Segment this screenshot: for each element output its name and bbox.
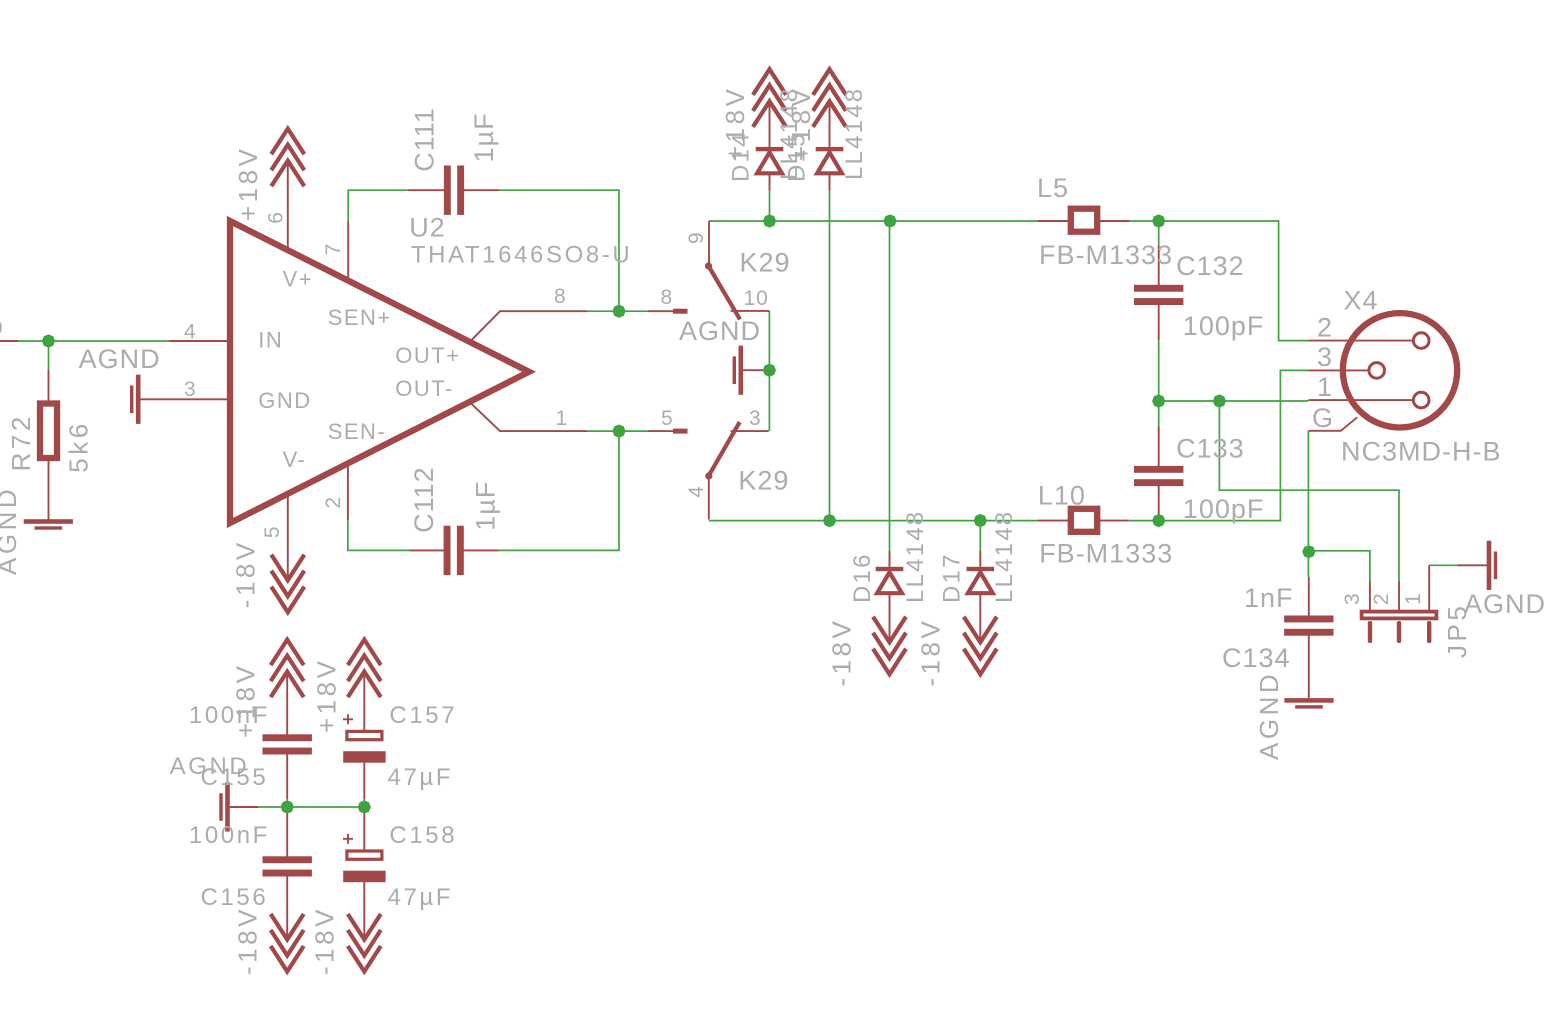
op-amp U2 triangle THAT1646SO8-U (230, 221, 529, 523)
svg-text:-18V: -18V (231, 539, 261, 608)
capacitor C158 47uF leads (363, 811, 365, 850)
diode D16 LL4148 (889, 551, 891, 567)
svg-text:100pF: 100pF (1183, 494, 1265, 524)
junction L5 C132 (1152, 214, 1165, 227)
wire D16 to top net (889, 221, 891, 551)
relay K29 bottom switch pin 3 lead (731, 430, 769, 432)
junction mid node branch (1213, 394, 1226, 407)
supply +18V above D15 (813, 69, 846, 127)
wire D17 drop (979, 521, 981, 551)
svg-text:+18V: +18V (311, 658, 341, 733)
svg-text:47µF: 47µF (388, 764, 454, 791)
svg-text:C158: C158 (389, 822, 457, 849)
X4 pin 1 lead (1308, 399, 1413, 401)
junction C155 rail left (281, 800, 294, 813)
JP5 pin stubs (1369, 581, 1371, 610)
svg-text:1µF: 1µF (471, 481, 501, 531)
C158 plus sign (343, 838, 353, 840)
svg-text:8: 8 (554, 285, 567, 308)
diode D15 LL4148 (829, 101, 831, 147)
X4 pin 2 lead (1308, 340, 1413, 342)
svg-text:9: 9 (0, 317, 4, 340)
svg-text:L5: L5 (1037, 173, 1069, 203)
svg-text:V-: V- (283, 447, 307, 472)
supply -18V below D17 (964, 617, 997, 675)
supply -18V below C156 (271, 914, 304, 972)
svg-text:R72: R72 (6, 413, 36, 471)
wire mid node to JP5 pin2 (1219, 401, 1399, 581)
relay K29 pin 4 lead (708, 492, 710, 519)
svg-text:OUT-: OUT- (395, 376, 454, 401)
svg-text:10: 10 (744, 287, 769, 310)
svg-text:1µF: 1µF (469, 112, 499, 162)
junction L10 C133 (1152, 514, 1165, 527)
capacitor C156 (263, 856, 312, 876)
svg-text:IN: IN (258, 327, 283, 352)
relay K29 top switch pin 9 (708, 221, 710, 253)
svg-text:D16: D16 (849, 552, 876, 603)
svg-text:GND: GND (258, 388, 311, 413)
capacitor C112 leads (409, 549, 445, 551)
svg-text:AGND: AGND (1464, 589, 1546, 619)
svg-text:-18V: -18V (310, 906, 340, 975)
svg-text:1: 1 (556, 407, 569, 430)
wire L10 row to pin3 (1129, 370, 1308, 520)
wire C133 bottom (1158, 516, 1160, 521)
junction top net at D16 (883, 214, 896, 227)
svg-text:C112: C112 (409, 466, 439, 533)
U2 pin 8 OUT+ lead (470, 311, 587, 341)
ground AGND right of JP5 (1458, 564, 1487, 566)
svg-text:C155: C155 (201, 764, 269, 791)
X4 pin holes (1413, 333, 1429, 349)
svg-text:2: 2 (322, 496, 345, 509)
svg-text:-18V: -18V (916, 618, 946, 687)
svg-text:C132: C132 (1176, 251, 1245, 281)
wire relay common (768, 311, 770, 431)
wire input net (18, 340, 169, 342)
pin header JP5 body (1362, 612, 1437, 619)
junction out+ node (612, 305, 625, 318)
svg-text:5: 5 (661, 407, 674, 430)
wire C132 top lead (1158, 221, 1160, 246)
capacitor C158 polarized plates (347, 851, 382, 859)
junction relay agnd (763, 364, 776, 377)
svg-text:47µF: 47µF (388, 884, 454, 911)
U2 pin 4 lead (169, 340, 231, 342)
svg-text:9: 9 (685, 231, 708, 244)
svg-text:NC3MD-H-B: NC3MD-H-B (1341, 437, 1502, 467)
svg-text:SEN-: SEN- (328, 419, 387, 444)
U2 pin 1 OUT- lead (470, 402, 587, 431)
svg-text:FB-M1333: FB-M1333 (1039, 240, 1173, 270)
X4 pin 3 lead (1308, 369, 1368, 371)
svg-text:3: 3 (1341, 592, 1364, 605)
svg-text:-18V: -18V (827, 618, 857, 687)
svg-text:C111: C111 (409, 107, 439, 172)
ground AGND at U2 pin3 (130, 375, 141, 424)
capacitor C132 (1134, 285, 1183, 305)
svg-text:1nF: 1nF (1244, 583, 1294, 613)
resistor R72 body 5k6 (40, 404, 57, 459)
supply +18V above D14 (753, 69, 786, 127)
diode D17 LL4148 (979, 551, 981, 567)
junction C155 rail right (358, 800, 371, 813)
svg-text:5k6: 5k6 (64, 420, 94, 472)
relay K29 pin 5 stub (648, 430, 674, 432)
svg-text:6: 6 (264, 211, 287, 224)
svg-text:K29: K29 (740, 248, 791, 278)
capacitor C157 polarized plates (347, 731, 382, 739)
svg-text:3: 3 (1317, 342, 1333, 372)
wire pin7 to C111 (348, 190, 408, 222)
svg-text:U2: U2 (409, 212, 446, 242)
U2 pin 6 V+ lead (287, 161, 289, 251)
svg-text:8: 8 (661, 286, 674, 309)
capacitor C133 100pF leads (1158, 427, 1160, 468)
supply +18V above C155 (271, 640, 304, 698)
svg-text:FB-M1333: FB-M1333 (1039, 538, 1173, 568)
svg-text:V+: V+ (283, 267, 314, 292)
junction G net (1302, 545, 1315, 558)
wire out- node to C112 (499, 431, 619, 550)
svg-text:+18V: +18V (720, 86, 750, 161)
svg-text:100nF: 100nF (189, 822, 270, 849)
capacitor C134 (1284, 616, 1333, 636)
wire C155 bottom lead (286, 799, 288, 807)
svg-text:3: 3 (749, 407, 762, 430)
junction input node (42, 334, 55, 347)
wire C156 top lead (286, 807, 288, 811)
capacitor C132 100pF leads (1158, 246, 1160, 286)
svg-text:C157: C157 (389, 702, 457, 729)
capacitor C155 100nF leads (286, 672, 288, 736)
svg-text:4: 4 (184, 321, 197, 344)
capacitor C111 leads (408, 189, 445, 191)
wire JP5 pin1 to AGND (1429, 564, 1458, 566)
svg-text:OUT+: OUT+ (395, 343, 460, 368)
JP5 legs (1368, 621, 1372, 643)
svg-text:X4: X4 (1344, 285, 1379, 315)
svg-text:4: 4 (685, 485, 708, 498)
off-sheet pin 9 stub (0, 340, 18, 342)
ground AGND below C134 (1284, 698, 1333, 709)
ferrite bead L5 FB-M1333 (1038, 220, 1068, 222)
relay K29 pin 8 stub (648, 310, 674, 312)
svg-text:+18V: +18V (230, 663, 260, 738)
svg-text:G: G (1312, 403, 1334, 433)
svg-text:+18V: +18V (233, 146, 263, 221)
wire out- row (587, 430, 648, 432)
svg-text:AGND: AGND (0, 486, 22, 575)
junction bottom net at D17 (974, 514, 987, 527)
svg-text:AGND: AGND (79, 344, 161, 374)
junction top net at D14 (763, 214, 776, 227)
wire C132 bottom (1158, 340, 1160, 427)
wire relay top net (709, 220, 1038, 222)
svg-text:AGND: AGND (1254, 671, 1284, 760)
junction bottom net at D15 (823, 514, 836, 527)
wire to R72 (48, 341, 50, 370)
svg-text:D17: D17 (938, 552, 965, 603)
svg-text:2: 2 (1370, 592, 1393, 605)
capacitor C155 (263, 734, 312, 754)
capacitor C134 1nF leads (1308, 577, 1310, 617)
svg-text:C133: C133 (1176, 434, 1245, 464)
wire G net down (1307, 431, 1309, 577)
ground AGND at relay common (733, 346, 744, 395)
wire agnd tap (762, 369, 769, 371)
ferrite bead L10 FB-M1333 (1038, 520, 1068, 522)
svg-text:2: 2 (1317, 313, 1333, 343)
wire C112 to pin2 (348, 520, 409, 550)
svg-text:-18V: -18V (233, 906, 263, 975)
wire D14 anode (769, 191, 771, 221)
wire G node to JP5 pin3 (1309, 551, 1370, 581)
wire L5 to C132 node (1129, 221, 1308, 341)
wire C157 bottom lead (363, 799, 365, 807)
wire mid node to pin1 (1159, 400, 1309, 402)
supply +18V above C157 (348, 640, 381, 698)
svg-text:1: 1 (1402, 592, 1425, 605)
capacitor C156 100nF leads (286, 811, 288, 857)
ground AGND left of C155 rail (219, 782, 230, 831)
capacitor C112 1uF (444, 526, 464, 575)
U2 pin 2 lead (347, 464, 349, 521)
svg-text:AGND: AGND (679, 316, 761, 346)
diode D14 LL4148 (769, 101, 771, 147)
U2 pin 3 lead with AGND stub (141, 398, 232, 400)
svg-text:100pF: 100pF (1183, 311, 1265, 341)
svg-text:SEN+: SEN+ (328, 305, 392, 330)
svg-text:LL4148: LL4148 (902, 510, 929, 603)
svg-text:1: 1 (1317, 372, 1333, 402)
supply -18V below D16 (873, 617, 906, 675)
relay K29 top switch blade (709, 266, 741, 319)
connector X4 NC3MD-H-B circle (1343, 313, 1457, 427)
supply -18V below C158 (348, 914, 381, 972)
svg-text:LL4148: LL4148 (841, 87, 868, 180)
svg-text:L10: L10 (1038, 481, 1086, 511)
svg-text:C134: C134 (1222, 643, 1291, 673)
svg-text:7: 7 (322, 243, 345, 256)
junction mid node (1152, 394, 1165, 407)
svg-text:K29: K29 (738, 466, 789, 496)
supply -18V below U2 pin5 (271, 555, 304, 613)
wire C155 rail (258, 806, 364, 808)
ground AGND below R72 (24, 519, 73, 530)
svg-text:+18V: +18V (786, 86, 816, 161)
svg-text:THAT1646SO8-U: THAT1646SO8-U (411, 241, 632, 268)
capacitor C133 (1134, 466, 1183, 486)
wire C111 to out+ node (499, 190, 619, 311)
relay K29 bottom switch blade (709, 422, 740, 475)
capacitor C111 1uF (444, 166, 464, 215)
U2 pin 7 lead (347, 222, 349, 281)
X4 pin G lead (1308, 417, 1357, 431)
wire C158 top lead (363, 807, 365, 811)
svg-text:3: 3 (184, 378, 197, 401)
resistor R72 leads (48, 370, 50, 401)
relay K29 pin 10 lead (731, 310, 770, 312)
junction out- node (612, 425, 625, 438)
svg-text:LL4148: LL4148 (991, 510, 1018, 603)
wire out+ row (587, 310, 648, 312)
supply +18V above U2 pin6 (271, 129, 304, 187)
wire relay bottom net (709, 520, 1038, 522)
svg-text:5: 5 (261, 525, 284, 538)
U2 pin 5 V- lead (287, 494, 289, 581)
wire D15 anode long (829, 191, 831, 521)
capacitor C157 47uF leads (363, 672, 365, 730)
C157 plus sign (343, 718, 353, 720)
